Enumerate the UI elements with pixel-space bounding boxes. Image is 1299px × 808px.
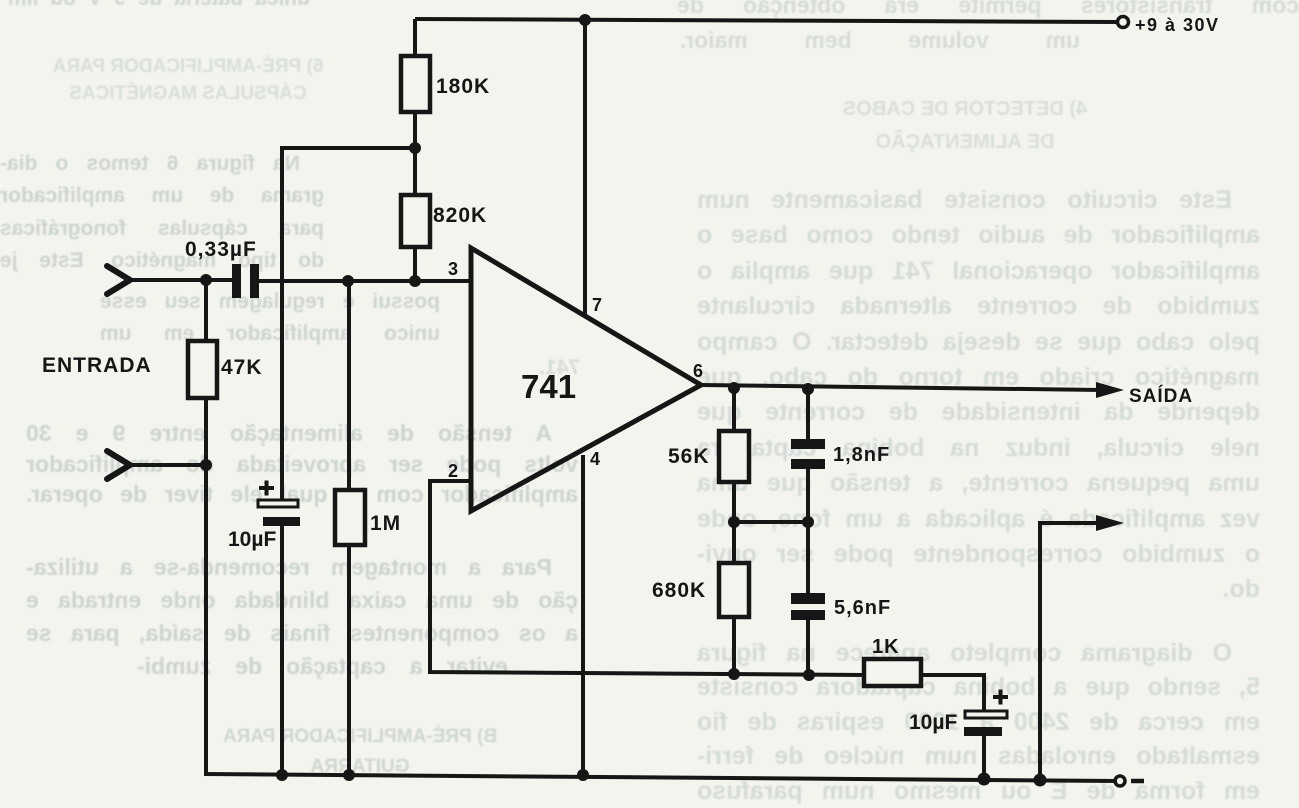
label 180K (436, 75, 490, 98)
svg-text:+9 à 30V: +9 à 30V (1135, 15, 1220, 35)
capacitor 1.8nF plates (791, 439, 825, 469)
resistor 180K (401, 56, 430, 112)
input arrow top (107, 266, 130, 294)
svg-text:ENTRADA: ENTRADA (42, 354, 152, 377)
pin 7 (592, 295, 602, 315)
svg-text:1K: 1K (872, 636, 900, 658)
label SAIDA (1129, 385, 1193, 407)
wire pin 2 feedback run (430, 481, 864, 675)
resistor 56K (719, 431, 749, 482)
pin 3 (448, 259, 458, 279)
input arrow bottom (107, 451, 130, 479)
svg-text:SAÍDA: SAÍDA (1129, 385, 1193, 407)
svg-text:47K: 47K (221, 356, 263, 379)
resistor 1K (864, 659, 921, 686)
wire output pin 6 (701, 385, 1102, 390)
bleed-through mirrored text, right column (677, 0, 1299, 20)
wire feedback middle junction (734, 520, 808, 524)
label 10uF bias (228, 528, 276, 551)
svg-text:180K: 180K (436, 75, 490, 98)
pin 6 (693, 361, 703, 381)
capacitor 5.6nF plates (791, 593, 825, 620)
resistor 680K (719, 563, 749, 617)
capacitor 1.8nF leads (806, 388, 810, 522)
label +9 a 30V (1135, 15, 1220, 35)
wire pin 4 to ground (581, 455, 585, 776)
capacitor 10uF bias plates (258, 481, 300, 527)
svg-text:0,33µF: 0,33µF (185, 238, 257, 261)
wire second output tap (1040, 523, 1102, 780)
svg-text:7: 7 (592, 295, 602, 315)
svg-text:3: 3 (448, 259, 458, 279)
label 680K (652, 579, 706, 602)
svg-text:820K: 820K (433, 204, 487, 227)
resistor 47K (188, 341, 217, 398)
wire left ground drop (204, 465, 208, 774)
label 47K (221, 356, 263, 379)
label 741 (521, 368, 576, 405)
resistor 820K leads (413, 148, 417, 281)
label 1M (370, 512, 401, 535)
resistor 680K leads (732, 522, 736, 675)
label 5.6nF (834, 597, 891, 619)
svg-text:5,6nF: 5,6nF (834, 597, 891, 619)
arrowhead SAIDA output (1096, 382, 1124, 398)
resistor 180K leads (413, 19, 417, 148)
svg-text:1,8nF: 1,8nF (833, 444, 890, 466)
label 1K (872, 636, 900, 658)
svg-text:2: 2 (448, 461, 458, 481)
svg-text:10µF: 10µF (228, 528, 276, 551)
label 0.33uF (185, 238, 257, 261)
svg-text:10µF: 10µF (909, 711, 957, 734)
bleed-through mirrored text, left column (8, 0, 310, 14)
capacitor 10uF output bottom lead (982, 736, 986, 779)
capacitor 10uF output plates (964, 690, 1008, 737)
op-amp U1 741 (471, 248, 701, 511)
svg-text:4: 4 (590, 449, 600, 469)
label 820K (433, 204, 487, 227)
resistor 1M (335, 490, 365, 545)
wire ground bottom rail (204, 774, 1117, 781)
wire V+ top rail (415, 19, 1117, 22)
resistor 820K (401, 195, 430, 247)
wire 1K to 10uF (921, 675, 984, 712)
svg-text:6: 6 (693, 361, 703, 381)
arrowhead second output (1096, 515, 1124, 531)
capacitor 0.33uF plates (232, 264, 259, 298)
capacitor 10uF bias bottom lead (280, 526, 284, 776)
resistor 1M leads (347, 281, 351, 776)
label 10uF output (909, 711, 957, 734)
svg-text:1M: 1M (370, 512, 401, 535)
svg-text:680K: 680K (652, 579, 706, 602)
capacitor 5.6nF leads (806, 522, 810, 675)
wire pin 7 to V+ (583, 20, 587, 316)
pin 4 (590, 449, 600, 469)
label 1.8nF (833, 444, 890, 466)
resistor 47K leads (204, 280, 208, 465)
label 56K (668, 445, 710, 468)
wire node A to bypass capacitor branch (282, 148, 415, 501)
wire input signal line right of capacitor to pin 3 (258, 279, 471, 283)
label ENTRADA (42, 354, 152, 377)
wire input return line (128, 463, 206, 467)
pin 2 (448, 461, 458, 481)
junction node dots (200, 14, 1047, 787)
svg-text:741: 741 (521, 368, 576, 405)
resistor 56K leads (732, 387, 736, 522)
terminal +9 a 30V (1118, 17, 1129, 28)
terminal minus (1115, 776, 1144, 786)
wire input signal line left of capacitor (126, 278, 233, 282)
svg-text:56K: 56K (668, 445, 710, 468)
